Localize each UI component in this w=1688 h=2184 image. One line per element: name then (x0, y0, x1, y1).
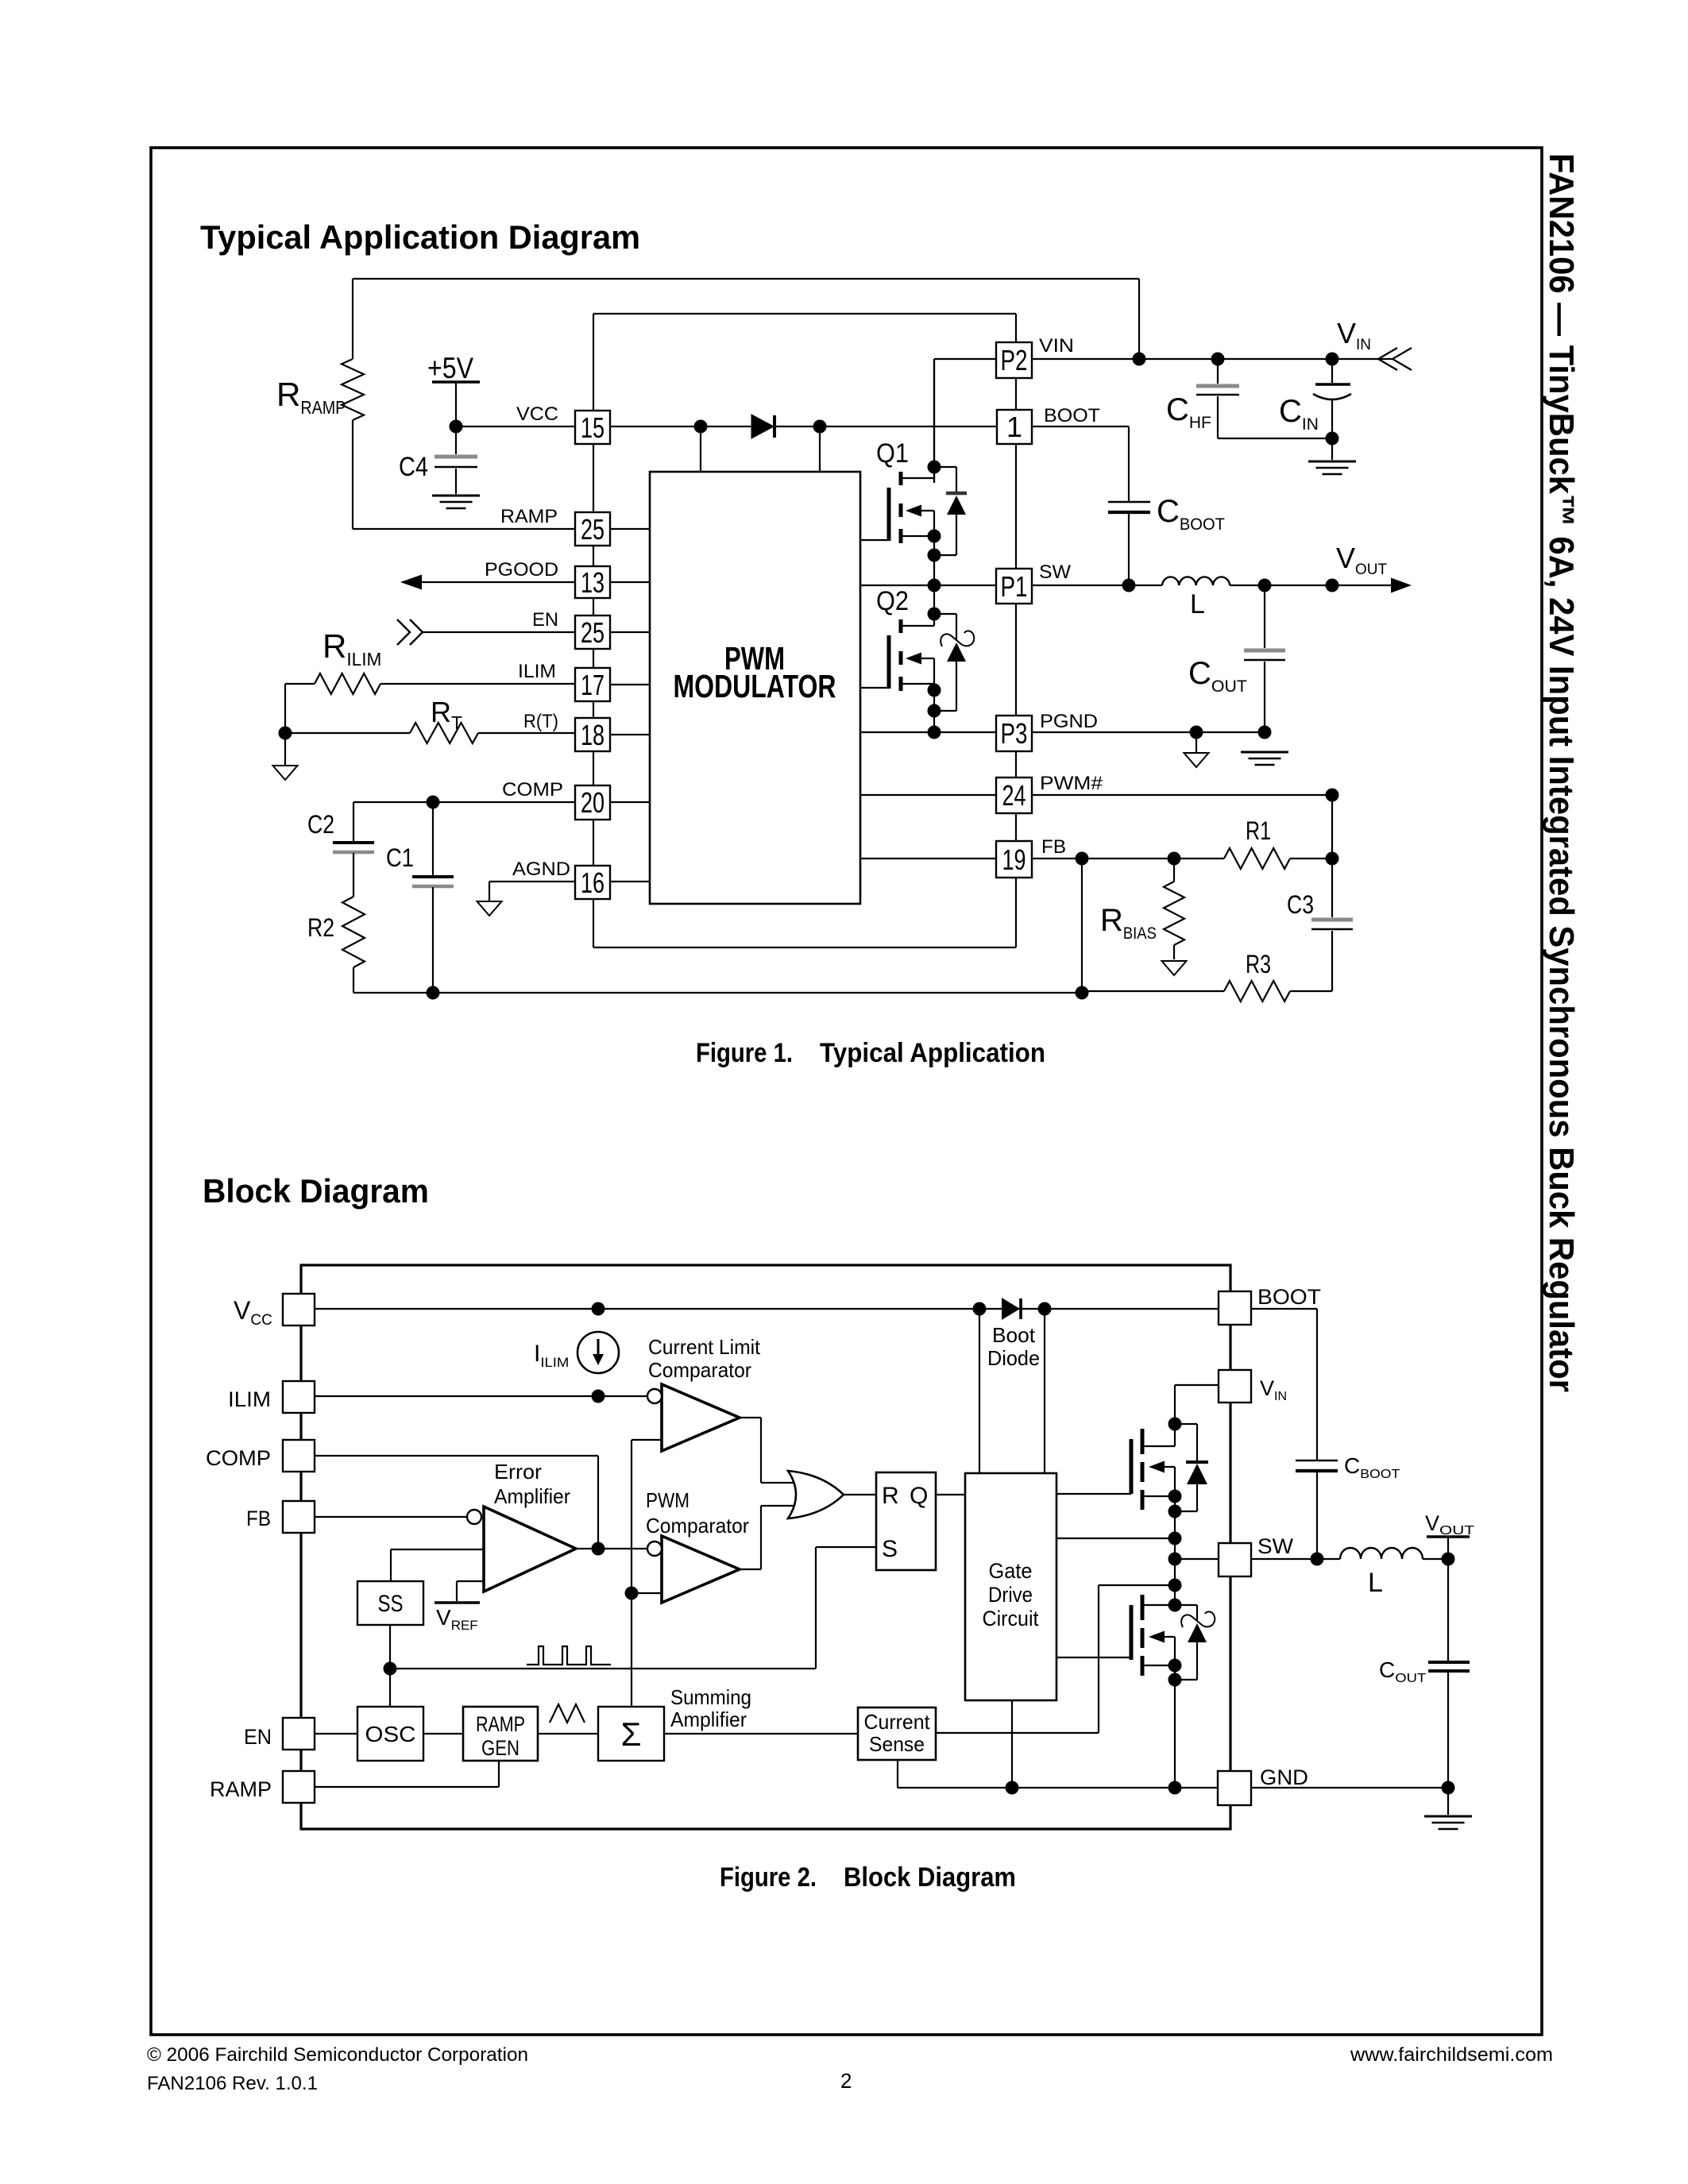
wire GND right (1251, 1787, 1448, 1788)
svg-text:Current: Current (864, 1710, 931, 1734)
wire L to VOUT fig2 (1423, 1558, 1448, 1560)
wire FB fig2 (315, 1516, 467, 1518)
block diagram outline (301, 1265, 1230, 1829)
svg-text:FB: FB (1041, 836, 1066, 858)
pin box 17 ILIM (575, 668, 610, 701)
svg-text:ILIM: ILIM (228, 1387, 271, 1411)
op-amp current limit comparator (647, 1384, 740, 1451)
junction GDC SW (1168, 1532, 1182, 1545)
junction Q2 nodes (928, 608, 941, 718)
svg-text:© 2006 Fairchild Semiconductor: © 2006 Fairchild Semiconductor Corporati… (147, 2044, 528, 2066)
ground agnd triangle RILIM (273, 766, 298, 780)
wire OR to R input (844, 1494, 876, 1495)
pin box BOOT fig2 (1219, 1291, 1251, 1325)
ground C4 earth (432, 496, 480, 508)
wire COUT top lead (1264, 585, 1265, 648)
wire top VIN feed (353, 279, 1139, 359)
junction SW CS tap (1168, 1579, 1182, 1592)
op-amp error amplifier (467, 1507, 576, 1592)
junction PGND nodes (1190, 726, 1272, 739)
junction boot diode nodes (694, 420, 827, 434)
pin box 18 RT (575, 718, 610, 751)
junction VIN nodes (1133, 353, 1339, 366)
wire Q to gate drive (936, 1494, 965, 1495)
pin box P2 VIN (996, 342, 1032, 378)
svg-text:COMP: COMP (206, 1446, 271, 1470)
svg-text:Error: Error (494, 1460, 542, 1484)
svg-text:Figure 1.: Figure 1. (696, 1038, 793, 1068)
label Current Limit Comparator (648, 1335, 761, 1382)
capacitor COUT (1244, 650, 1285, 660)
wire CL comp plus input (632, 1439, 662, 1441)
wire PGND gnd stub (1196, 732, 1197, 753)
wire SW from modulator (860, 585, 996, 586)
svg-text:Drive: Drive (988, 1583, 1033, 1607)
svg-text:Q: Q (910, 1483, 928, 1509)
svg-text:RAMP: RAMP (476, 1712, 525, 1736)
wire SS to OSC (389, 1625, 391, 1707)
wire SW right (1031, 585, 1162, 586)
svg-text:25: 25 (581, 616, 605, 649)
wire SW to L fig2 (1251, 1558, 1340, 1560)
wire CIN ground stub (1331, 438, 1333, 460)
wire boot diode legs (979, 1309, 1045, 1473)
svg-text:Summing: Summing (670, 1685, 751, 1709)
ground RBIAS triangle (1162, 961, 1187, 975)
svg-text:FAN2106 Rev. 1.0.1: FAN2106 Rev. 1.0.1 (147, 2073, 318, 2094)
diode Q2 body schottky (934, 614, 974, 711)
wire L to VOUT (1230, 585, 1392, 586)
capacitor CHF (1196, 386, 1239, 395)
svg-text:Comparator: Comparator (648, 1358, 751, 1382)
wire COMP to C2 (353, 802, 354, 841)
junction EA output COMP (592, 1542, 605, 1556)
ground AGND triangle (477, 901, 502, 916)
svg-text:R3: R3 (1246, 950, 1271, 978)
junction Q2 source PGND (928, 726, 941, 739)
junction SS clock node (384, 1662, 397, 1676)
wire CIN top lead (1331, 359, 1333, 383)
ground GND earth fig2 (1424, 1816, 1472, 1829)
svg-text:C4: C4 (399, 452, 428, 482)
svg-text:SW: SW (1257, 1534, 1294, 1558)
wire PWMn left (860, 794, 996, 796)
wire sigma to current sense (664, 1733, 858, 1734)
pin box VIN fig2 (1219, 1370, 1251, 1403)
svg-text:P1: P1 (1001, 570, 1028, 603)
inductor L (1162, 577, 1230, 585)
junction CIN ground node (1326, 432, 1339, 446)
inductor L fig2 (1340, 1548, 1423, 1559)
svg-text:Typical Application: Typical Application (820, 1038, 1045, 1068)
block RAMP GEN (463, 1707, 538, 1761)
terminal EN chevrons (397, 619, 423, 645)
wire clock to S input (390, 1547, 876, 1669)
svg-text:Circuit: Circuit (983, 1607, 1039, 1630)
wire COUT bottom lead fig2 (1447, 1673, 1449, 1788)
wire FB left (860, 858, 996, 859)
pin box RAMP fig2 (283, 1771, 315, 1803)
pin box 1 BOOT (997, 410, 1032, 444)
svg-text:SW: SW (1039, 561, 1071, 583)
svg-text:GEN: GEN (481, 1736, 520, 1760)
wire C4 top lead (455, 426, 457, 454)
svg-text:VCC: VCC (516, 403, 558, 425)
junction HS mosfet nodes (1168, 1418, 1182, 1518)
pin box VCC fig2 (283, 1294, 315, 1325)
pin box 24 PWMn (996, 778, 1032, 813)
wire COMP fig2 (315, 1456, 598, 1549)
wire RAMP pin to RRAMP (353, 528, 575, 530)
pin box ILIM fig2 (283, 1381, 315, 1413)
wire VCC tap into modulator right (819, 426, 821, 472)
svg-text:25: 25 (581, 513, 605, 546)
wire GDC bottom to GND (1011, 1700, 1013, 1788)
svg-text:Q2: Q2 (876, 586, 909, 616)
capacitor C1 (412, 877, 454, 886)
wire BOOT to CBOOT (1032, 426, 1129, 501)
junction FB nodes (1076, 852, 1181, 866)
capacitor C3 (1311, 920, 1353, 929)
wire pin15 to boot diode to pin 1 (610, 426, 996, 427)
wire FB right (1032, 858, 1224, 859)
diode HS body fig2 (1175, 1424, 1208, 1511)
label PWM MODULATOR (674, 640, 836, 704)
wire C4 bottom lead (455, 469, 457, 494)
waveform sawtooth (550, 1704, 585, 1723)
wire GND left (898, 1787, 1218, 1788)
diode D1 boot (751, 415, 774, 438)
svg-text:BOOT: BOOT (1044, 405, 1100, 426)
wire RAMP pin to ramp gen (315, 1761, 499, 1787)
svg-text:+5V: +5V (427, 352, 473, 384)
wire COMP to C1 (432, 802, 434, 875)
wire GND earth stub (1447, 1788, 1449, 1815)
svg-text:SS: SS (378, 1591, 404, 1617)
supply +5V (427, 352, 480, 426)
wire PWM comp plus input (632, 1592, 662, 1594)
capacitor CIN polarized (1313, 384, 1351, 399)
junction VCC rail nodes (592, 1302, 1052, 1316)
block Gate Drive Circuit (965, 1473, 1056, 1700)
wire chip bottom edge (593, 947, 1016, 948)
wire RAMP GEN to sigma (538, 1733, 598, 1734)
svg-text:17: 17 (581, 669, 605, 701)
wire VIN to HS drain (1175, 1385, 1219, 1446)
svg-text:P2: P2 (1001, 344, 1028, 376)
block Current Sense (858, 1707, 936, 1760)
svg-text:18: 18 (581, 719, 605, 751)
pin box 25 EN (575, 615, 610, 649)
junction IILIM ILIM (592, 1390, 605, 1403)
block OSC (357, 1707, 423, 1761)
wire SW wire fig2 (1175, 1558, 1219, 1560)
svg-text:2: 2 (840, 2069, 852, 2093)
pin box EN fig2 (283, 1718, 315, 1750)
caption Figure 2 (720, 1862, 1016, 1893)
svg-text:15: 15 (581, 411, 605, 444)
wire COUT top lead fig2 (1447, 1559, 1449, 1661)
pin box P3 PGND (996, 716, 1032, 751)
svg-text:C3: C3 (1287, 890, 1314, 919)
pin box 20 COMP (575, 785, 610, 820)
junction CBOOT SW (1122, 579, 1136, 592)
svg-text:Sense: Sense (869, 1732, 925, 1756)
label Gate Drive Circuit (983, 1559, 1039, 1630)
pin box FB fig2 (283, 1501, 315, 1533)
svg-text:PGND: PGND (1040, 711, 1098, 732)
svg-text:EN: EN (244, 1725, 272, 1749)
terminal VOUT fig2 (1427, 1537, 1470, 1559)
svg-text:L: L (1368, 1568, 1383, 1598)
junction GND COUT (1442, 1781, 1455, 1795)
junction VOUT node fig2 (1442, 1553, 1455, 1566)
svg-text:RAMP: RAMP (500, 506, 558, 527)
junction RILIM RT (279, 727, 292, 740)
wire VCC rail fig2 (315, 1308, 1219, 1310)
svg-text:FB: FB (246, 1507, 271, 1530)
svg-text:Q1: Q1 (876, 438, 909, 469)
svg-text:13: 13 (581, 566, 605, 599)
svg-text:EN: EN (532, 609, 558, 631)
page border frame (151, 148, 1542, 2035)
wire VCC node to pin 15 (456, 426, 575, 427)
svg-text:C2: C2 (307, 810, 334, 839)
wire PGOOD (402, 581, 575, 583)
pin box 13 PGOOD (575, 566, 610, 599)
svg-text:GND: GND (1260, 1765, 1308, 1789)
wire junction to ground (284, 733, 286, 766)
svg-text:PWM: PWM (646, 1488, 689, 1512)
junction SW out nodes (1258, 579, 1339, 592)
resistor R3 (1082, 981, 1332, 1001)
capacitor CBOOT fig2 (1296, 1461, 1338, 1471)
pin box P1 SW (996, 569, 1032, 604)
svg-text:Amplifier: Amplifier (494, 1484, 570, 1508)
svg-text:24: 24 (1002, 779, 1026, 812)
svg-text:16: 16 (581, 866, 605, 899)
svg-text:R2: R2 (307, 913, 334, 942)
svg-text:AGND: AGND (512, 859, 570, 880)
transistor Q2 (860, 585, 934, 732)
wire C3 branch (1331, 795, 1333, 917)
wire compensation bottom (353, 992, 1082, 994)
junction Q1 nodes (928, 461, 941, 562)
svg-text:Diode: Diode (987, 1346, 1040, 1370)
caption Figure 1 (696, 1038, 1045, 1068)
svg-text:COMP: COMP (502, 779, 563, 801)
svg-text:FAN2106 — TinyBuck™ 6A, 24V In: FAN2106 — TinyBuck™ 6A, 24V Input Integr… (1542, 153, 1581, 1392)
block PWM MODULATOR (650, 472, 860, 904)
svg-text:BOOT: BOOT (1257, 1285, 1321, 1309)
wire AGND (489, 882, 575, 901)
wire PGND right (1031, 731, 1265, 733)
wire CBOOT to SW (1128, 514, 1130, 585)
svg-text:1: 1 (1006, 411, 1022, 443)
wire EA output (576, 1548, 647, 1549)
pin box 15 VCC (575, 411, 610, 444)
wire P2 to Q1 drain (934, 359, 996, 483)
wire PWM comp output to OR (740, 1506, 794, 1569)
resistor R1 (1224, 848, 1332, 869)
wire EN (423, 631, 575, 633)
junction summing bus PWM input (625, 1587, 639, 1600)
svg-text:R: R (882, 1483, 899, 1509)
junction SW Q1 Q2 (928, 579, 941, 592)
svg-text:S: S (882, 1536, 898, 1562)
current source IILIM (577, 1332, 619, 1373)
wire CIN bottom lead (1331, 399, 1333, 438)
wire pin stubs to modulator (610, 529, 650, 882)
svg-text:Current Limit: Current Limit (648, 1335, 761, 1359)
wire current sense to GND (897, 1760, 898, 1788)
junction COMP C1 branch (427, 796, 440, 809)
pin box GND fig2 (1218, 1771, 1251, 1805)
capacitor CBOOT (1108, 502, 1150, 512)
junction bottom wire nodes (427, 986, 1089, 1000)
diode Q1 body (934, 467, 967, 555)
svg-text:C1: C1 (386, 843, 414, 872)
svg-text:Typical Application Diagram: Typical Application Diagram (200, 218, 640, 256)
svg-text:R(T): R(T) (523, 711, 558, 732)
svg-text:PWM#: PWM# (1040, 773, 1103, 794)
label Error Amplifier (494, 1460, 570, 1508)
block RS flip-flop (876, 1472, 936, 1570)
pin box 16 AGND (575, 866, 610, 899)
label Summing Amplifier (670, 1685, 751, 1731)
svg-text:www.fairchildsemi.com: www.fairchildsemi.com (1350, 2044, 1553, 2066)
svg-text:Amplifier: Amplifier (670, 1707, 747, 1731)
label Boot Diode (987, 1323, 1040, 1370)
resistor R2 (342, 853, 365, 993)
wire PGND left (860, 731, 996, 733)
wire CHF bottom lead (1218, 396, 1332, 438)
wire CL comp output to OR (740, 1418, 794, 1483)
pin box 25 RAMP (575, 512, 610, 546)
svg-text:Boot: Boot (992, 1323, 1036, 1347)
wire chip right pin rail (1015, 314, 1017, 947)
svg-text:MODULATOR: MODULATOR (674, 668, 836, 704)
junction LS mosfet nodes (1168, 1599, 1182, 1687)
svg-text:ILIM: ILIM (518, 661, 556, 682)
diode boot fig2 (1002, 1298, 1021, 1320)
junction R1 C3 (1326, 852, 1339, 866)
resistor RILIM (285, 673, 575, 694)
resistor RRAMP (342, 279, 364, 529)
ground PGND earth (1241, 752, 1288, 765)
svg-text:Figure 2.: Figure 2. (720, 1862, 817, 1893)
junction SW node fig2 (1168, 1553, 1182, 1566)
gate OR (788, 1471, 844, 1518)
wire chip left pin rail (593, 314, 594, 947)
svg-text:Comparator: Comparator (646, 1514, 749, 1538)
junction VCC node (450, 420, 463, 434)
block summing amplifier sigma (598, 1707, 664, 1761)
capacitor C2 (333, 843, 374, 852)
wire PWMn right (1032, 794, 1332, 796)
wire EA plus input to SS (391, 1549, 484, 1581)
transistor Q1 (860, 359, 934, 585)
wire gate drive to SW node (1056, 1538, 1175, 1539)
svg-text:PGOOD: PGOOD (485, 559, 558, 581)
pin box 19 FB (996, 841, 1032, 878)
capacitor COUT fig2 (1428, 1662, 1470, 1671)
svg-text:Block Diagram: Block Diagram (844, 1862, 1016, 1893)
block SS (357, 1581, 423, 1625)
waveform clock pulses (527, 1646, 611, 1665)
resistor RT (285, 723, 575, 743)
capacitor C4 (435, 457, 477, 467)
terminal VIN chevrons (1378, 348, 1412, 370)
svg-text:VIN: VIN (1039, 335, 1074, 357)
svg-text:RAMP: RAMP (210, 1777, 272, 1801)
wire BOOT to CBOOT fig2 (1251, 1309, 1317, 1460)
svg-text:20: 20 (581, 786, 605, 819)
svg-text:OSC: OSC (365, 1722, 416, 1746)
wire CBOOT to SW fig2 (1316, 1472, 1318, 1559)
diode LS body schottky fig2 (1175, 1605, 1215, 1680)
op-amp PWM comparator (647, 1536, 740, 1603)
junction GND nodes left (1006, 1781, 1182, 1795)
wire VCC tap into modulator left (700, 426, 701, 472)
svg-text:Σ: Σ (621, 1715, 642, 1753)
junction PWMn C3 (1326, 789, 1339, 802)
wire SW to current sense (936, 1585, 1175, 1733)
wire OSC to RAMP GEN (423, 1733, 463, 1734)
wire FB down to R3 (1081, 859, 1083, 993)
svg-text:L: L (1190, 589, 1205, 619)
svg-text:R1: R1 (1246, 816, 1271, 845)
wire ILIM fig2 (315, 1395, 647, 1397)
transistor LS mosfet fig2 (1056, 1595, 1175, 1788)
arrow PGOOD output (400, 575, 422, 590)
wire EN to OSC (315, 1733, 357, 1734)
junction CBOOT SW fig2 (1311, 1553, 1324, 1566)
transistor HS mosfet fig2 (1056, 1429, 1175, 1605)
ground CIN earth (1308, 461, 1356, 474)
svg-text:Block Diagram: Block Diagram (203, 1172, 429, 1210)
wire COMP (353, 801, 575, 803)
wire RILIM down to RT junction (284, 684, 286, 733)
svg-text:P3: P3 (1001, 717, 1028, 750)
wire COUT bottom lead (1264, 662, 1265, 732)
resistor RBIAS (1164, 859, 1184, 959)
wire chip top edge (593, 313, 1016, 314)
svg-text:Gate: Gate (989, 1559, 1033, 1583)
label PWM Comparator (646, 1488, 749, 1538)
wire CHF top lead (1217, 359, 1219, 384)
wire C3 to R3 (1331, 931, 1333, 991)
wire VIN rail (1031, 358, 1392, 360)
wire summing bus vertical (631, 1440, 632, 1707)
arrow VOUT (1391, 578, 1412, 593)
ground PGND triangle (1184, 753, 1209, 767)
wire C1 bottom lead (432, 887, 434, 993)
pin box SW fig2 (1219, 1543, 1251, 1576)
pin box COMP fig2 (283, 1440, 315, 1472)
reference VREF (435, 1581, 484, 1603)
svg-text:19: 19 (1002, 843, 1026, 876)
